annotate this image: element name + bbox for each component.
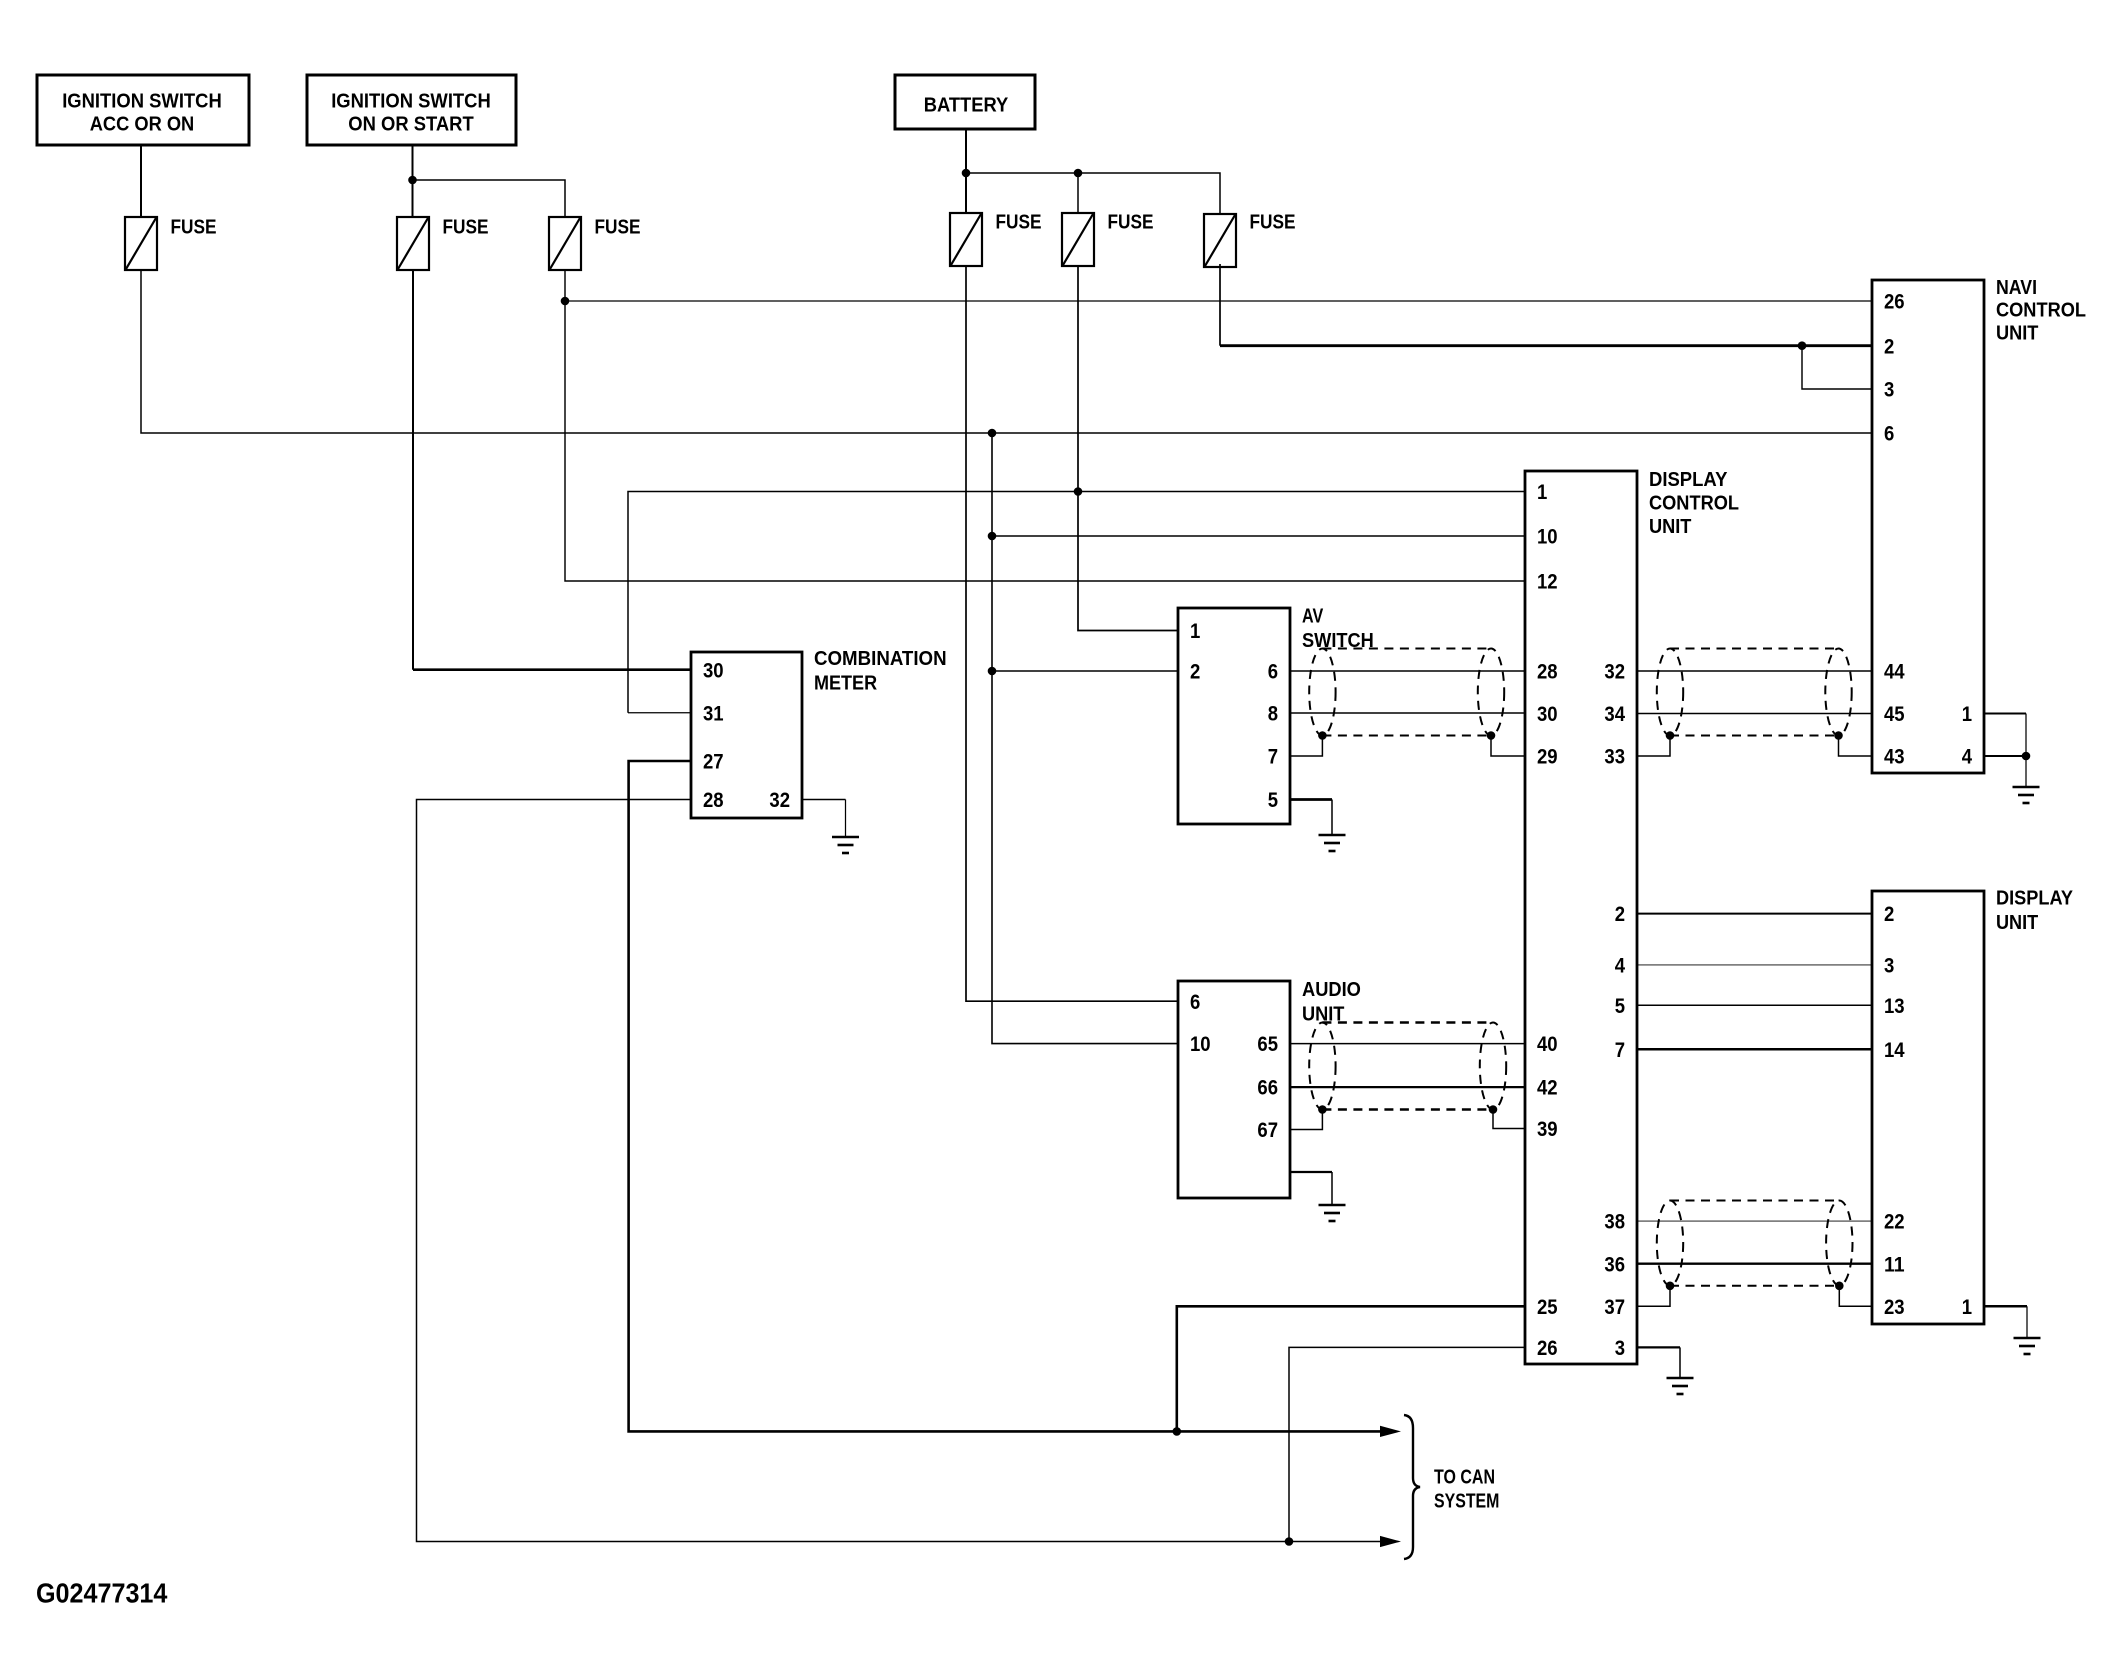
battery box bbox=[895, 75, 1035, 129]
wire: DCU 7 to DISPLAY 14 bbox=[1637, 1048, 1872, 1051]
wire: METER pin 31 stub bbox=[628, 712, 691, 714]
wire: DCU 36 to DISPLAY 11 bbox=[1637, 1262, 1872, 1264]
svg-text:3: 3 bbox=[1884, 955, 1894, 978]
wire: battery fuse2 to AV pin 1 bbox=[1078, 266, 1178, 631]
wire: junction to NAVI pin 26 bbox=[565, 300, 1872, 302]
label TO CAN SYSTEM bbox=[1434, 1466, 1499, 1512]
DISPLAY CONTROL UNIT pin 4 (right) bbox=[1615, 955, 1626, 978]
svg-text:30: 30 bbox=[703, 659, 724, 682]
wire: METER pin 27 to CAN (thick) bbox=[629, 761, 1381, 1431]
DISPLAY CONTROL UNIT pin 25 bbox=[1537, 1296, 1558, 1319]
junction NAVI ground bbox=[2022, 752, 2031, 761]
DISPLAY UNIT pin 3 bbox=[1884, 955, 1894, 978]
svg-text:7: 7 bbox=[1268, 746, 1278, 769]
svg-text:11: 11 bbox=[1884, 1253, 1905, 1276]
ground (AV SWITCH) bbox=[1319, 835, 1346, 851]
svg-text:2: 2 bbox=[1884, 903, 1894, 926]
junction battery bus left bbox=[962, 169, 971, 178]
svg-text:33: 33 bbox=[1604, 746, 1625, 769]
DISPLAY CONTROL UNIT pin 40 bbox=[1537, 1033, 1558, 1056]
shielded cable DCU-DISPLAY bbox=[1657, 1201, 1853, 1291]
DISPLAY UNIT pin 1 (right) bbox=[1962, 1296, 1973, 1319]
svg-text:COMBINATION: COMBINATION bbox=[814, 648, 947, 670]
AV SWITCH pin 2 bbox=[1190, 661, 1200, 684]
fuse (battery 1) bbox=[950, 212, 1042, 267]
fuse (IGN right) bbox=[549, 216, 641, 270]
wire: DCU 4 to DISPLAY 3 bbox=[1637, 964, 1872, 966]
shielded cable AV-DCU bbox=[1309, 649, 1504, 740]
wire: battery fuse3 to NAVI pin 2 (thick) bbox=[1220, 264, 1872, 346]
svg-text:37: 37 bbox=[1604, 1296, 1625, 1319]
AUDIO UNIT pin 67 (right) bbox=[1257, 1119, 1278, 1142]
DISPLAY UNIT box bbox=[1872, 887, 2074, 1324]
DISPLAY CONTROL UNIT pin 26 bbox=[1537, 1337, 1558, 1360]
wire: battery bus bbox=[966, 173, 1220, 214]
NAVI CONTROL UNIT box bbox=[1872, 277, 2086, 773]
svg-text:FUSE: FUSE bbox=[996, 212, 1042, 234]
wire: METER pin 28 to CAN bbox=[417, 800, 1381, 1542]
wire: DCU pin 10 feed bbox=[992, 535, 1525, 537]
svg-text:ON OR START: ON OR START bbox=[348, 113, 473, 135]
svg-text:2: 2 bbox=[1615, 903, 1625, 926]
svg-text:FUSE: FUSE bbox=[1250, 212, 1296, 234]
svg-text:42: 42 bbox=[1537, 1077, 1558, 1100]
DISPLAY UNIT pin 11 bbox=[1884, 1253, 1905, 1276]
NAVI pin 44 bbox=[1884, 661, 1905, 684]
figure number bbox=[36, 1577, 168, 1608]
shielded cable AUDIO-DCU bbox=[1309, 1023, 1506, 1114]
ground (DISPLAY CONTROL UNIT) bbox=[1667, 1378, 1694, 1394]
shielded cable DCU-NAVI bbox=[1657, 649, 1852, 740]
ground (COMBINATION METER) bbox=[832, 837, 859, 853]
wire: AUDIO 67 to shield drain bbox=[1290, 1110, 1322, 1130]
svg-text:6: 6 bbox=[1268, 661, 1278, 684]
svg-text:IGNITION SWITCH: IGNITION SWITCH bbox=[62, 90, 222, 112]
wire: shield drain to DISPLAY 23 bbox=[1839, 1286, 1872, 1307]
junction on NAVI 26 feed bbox=[561, 297, 570, 306]
COMBINATION METER box bbox=[691, 648, 947, 818]
DISPLAY CONTROL UNIT pin 10 bbox=[1537, 526, 1558, 549]
DISPLAY CONTROL UNIT pin 33 (right) bbox=[1604, 746, 1625, 769]
wire: DCU 2 to DISPLAY 2 bbox=[1637, 913, 1872, 915]
wire: NAVI pin 4 to ground bbox=[1984, 756, 2026, 787]
svg-text:5: 5 bbox=[1268, 789, 1279, 812]
svg-text:23: 23 bbox=[1884, 1296, 1905, 1319]
ignition switch ACC OR ON box bbox=[37, 75, 249, 145]
wire: battery fuse1 to AUDIO pin 6 bbox=[966, 266, 1178, 1001]
svg-text:66: 66 bbox=[1257, 1077, 1278, 1100]
ground (DISPLAY UNIT) bbox=[2014, 1338, 2041, 1354]
wire: DCU 34 to NAVI 45 bbox=[1637, 713, 1872, 715]
NAVI pin 43 bbox=[1884, 746, 1905, 769]
svg-text:1: 1 bbox=[1962, 703, 1973, 726]
NAVI pin 3 bbox=[1884, 379, 1894, 402]
wire: ACC fuse to NAVI pin 6 bbox=[141, 270, 1872, 433]
arrow CAN thick bbox=[1380, 1426, 1401, 1437]
wire: right IGN fuse down to DCU pin 12 bbox=[565, 270, 1525, 581]
junction NAVI 2/3 bbox=[1798, 341, 1807, 350]
AV SWITCH pin 5 (right) bbox=[1268, 789, 1279, 812]
AV SWITCH pin 6 (right) bbox=[1268, 661, 1278, 684]
wire: DCU 5 to DISPLAY 13 bbox=[1637, 1004, 1872, 1006]
wire: shield drain to DCU 29 bbox=[1491, 736, 1525, 757]
svg-text:UNIT: UNIT bbox=[1996, 912, 2038, 934]
svg-text:65: 65 bbox=[1257, 1033, 1278, 1056]
svg-text:44: 44 bbox=[1884, 661, 1905, 684]
DISPLAY UNIT pin 22 bbox=[1884, 1211, 1905, 1234]
AUDIO UNIT box bbox=[1178, 979, 1361, 1198]
svg-text:NAVI: NAVI bbox=[1996, 277, 2037, 299]
svg-text:FUSE: FUSE bbox=[171, 216, 217, 238]
ignition switch ON OR START box bbox=[307, 75, 516, 145]
AUDIO UNIT pin 6 bbox=[1190, 991, 1200, 1014]
wire: DCU 33 to shield drain bbox=[1637, 736, 1670, 757]
svg-text:67: 67 bbox=[1257, 1119, 1278, 1142]
wire: NAVI pin 3 feed bbox=[1802, 346, 1872, 389]
junction battery bus middle bbox=[1074, 169, 1083, 178]
wire: DCU pin 26 to CAN junction bbox=[1289, 1347, 1525, 1541]
svg-text:28: 28 bbox=[1537, 661, 1558, 684]
svg-text:2: 2 bbox=[1884, 335, 1894, 358]
svg-text:FUSE: FUSE bbox=[1108, 212, 1154, 234]
svg-text:29: 29 bbox=[1537, 746, 1558, 769]
brace TO CAN SYSTEM bbox=[1404, 1415, 1420, 1559]
NAVI pin 1 (right) bbox=[1962, 703, 1973, 726]
wire: IGN ACC to fuse bbox=[140, 145, 142, 217]
wire: DISPLAY UNIT pin 1 to ground bbox=[1984, 1306, 2027, 1338]
svg-text:IGNITION SWITCH: IGNITION SWITCH bbox=[331, 90, 491, 112]
AV SWITCH box bbox=[1178, 606, 1374, 825]
NAVI pin 4 (right) bbox=[1962, 746, 1973, 769]
DISPLAY CONTROL UNIT pin 5 (right) bbox=[1615, 995, 1626, 1018]
svg-text:METER: METER bbox=[814, 672, 878, 694]
junction ACC vertical top bbox=[988, 429, 997, 438]
junction DCU1/battery bbox=[1074, 487, 1083, 496]
DISPLAY CONTROL UNIT pin 37 (right) bbox=[1604, 1296, 1625, 1319]
svg-text:30: 30 bbox=[1537, 703, 1558, 726]
wire: DCU 38 to DISPLAY 22 bbox=[1637, 1220, 1872, 1222]
DISPLAY CONTROL UNIT pin 36 (right) bbox=[1604, 1253, 1625, 1276]
svg-text:32: 32 bbox=[1604, 661, 1625, 684]
fuse (ACC) bbox=[125, 216, 217, 270]
svg-text:7: 7 bbox=[1615, 1039, 1625, 1062]
AUDIO UNIT pin 66 (right) bbox=[1257, 1077, 1278, 1100]
wire: AV 7 to shield drain bbox=[1290, 736, 1322, 757]
svg-text:22: 22 bbox=[1884, 1211, 1905, 1234]
DISPLAY CONTROL UNIT pin 29 bbox=[1537, 746, 1558, 769]
NAVI pin 26 bbox=[1884, 291, 1905, 314]
COMBINATION METER pin 27 bbox=[703, 751, 724, 774]
svg-text:28: 28 bbox=[703, 789, 724, 812]
DISPLAY CONTROL UNIT pin 30 bbox=[1537, 703, 1558, 726]
svg-text:FUSE: FUSE bbox=[595, 216, 641, 238]
svg-text:DISPLAY: DISPLAY bbox=[1996, 887, 2074, 909]
svg-text:45: 45 bbox=[1884, 703, 1905, 726]
svg-text:3: 3 bbox=[1615, 1337, 1625, 1360]
fuse (battery 2) bbox=[1062, 212, 1154, 267]
wire: ACC branch vertical bbox=[992, 433, 1178, 1044]
DISPLAY UNIT pin 14 bbox=[1884, 1039, 1905, 1062]
wire: shield drain to NAVI 43 bbox=[1839, 736, 1873, 757]
svg-text:31: 31 bbox=[703, 702, 724, 725]
svg-text:BATTERY: BATTERY bbox=[924, 94, 1009, 116]
svg-text:TO CAN: TO CAN bbox=[1434, 1466, 1495, 1488]
fuse (battery 3) bbox=[1204, 212, 1296, 268]
DISPLAY CONTROL UNIT pin 7 (right) bbox=[1615, 1039, 1625, 1062]
AV SWITCH pin 8 (right) bbox=[1268, 703, 1279, 726]
svg-text:26: 26 bbox=[1537, 1337, 1558, 1360]
svg-text:43: 43 bbox=[1884, 746, 1905, 769]
wire: AV 6 to DCU 28 bbox=[1290, 670, 1525, 672]
COMBINATION METER pin 28 bbox=[703, 789, 724, 812]
svg-text:DISPLAY: DISPLAY bbox=[1649, 469, 1728, 491]
svg-text:38: 38 bbox=[1604, 1211, 1625, 1234]
svg-text:14: 14 bbox=[1884, 1039, 1905, 1062]
svg-text:8: 8 bbox=[1268, 703, 1279, 726]
svg-text:34: 34 bbox=[1604, 703, 1625, 726]
svg-text:AUDIO: AUDIO bbox=[1302, 979, 1361, 1001]
AV SWITCH pin 7 (right) bbox=[1268, 746, 1278, 769]
svg-text:25: 25 bbox=[1537, 1296, 1558, 1319]
svg-text:UNIT: UNIT bbox=[1649, 516, 1691, 538]
COMBINATION METER pin 31 bbox=[703, 702, 724, 725]
wire: battery down bbox=[965, 129, 967, 213]
svg-text:6: 6 bbox=[1884, 423, 1894, 446]
svg-text:40: 40 bbox=[1537, 1033, 1558, 1056]
svg-text:ACC OR ON: ACC OR ON bbox=[90, 113, 195, 135]
wire: DCU pin 25 to CAN junction (thick) bbox=[1177, 1306, 1525, 1431]
svg-text:CONTROL: CONTROL bbox=[1996, 300, 2086, 322]
svg-text:1: 1 bbox=[1190, 620, 1201, 643]
svg-text:3: 3 bbox=[1884, 379, 1894, 402]
DISPLAY UNIT pin 23 bbox=[1884, 1296, 1905, 1319]
DISPLAY CONTROL UNIT pin 3 (right) bbox=[1615, 1337, 1625, 1360]
svg-text:SYSTEM: SYSTEM bbox=[1434, 1490, 1499, 1512]
svg-text:26: 26 bbox=[1884, 291, 1905, 314]
wire: AUDIO 65 to DCU 40 bbox=[1290, 1043, 1525, 1045]
wire: IGN ON/START to fuse bbox=[412, 145, 414, 217]
COMBINATION METER pin 32 (right) bbox=[769, 789, 790, 812]
DISPLAY CONTROL UNIT pin 2 (right) bbox=[1615, 903, 1625, 926]
wire: METER pin 32 to ground bbox=[802, 800, 846, 838]
junction CAN thick bbox=[1173, 1427, 1182, 1436]
DISPLAY CONTROL UNIT pin 34 (right) bbox=[1604, 703, 1625, 726]
fuse (IGN left) bbox=[397, 216, 489, 270]
AUDIO UNIT pin 10 bbox=[1190, 1033, 1211, 1056]
wire: NAVI pin 1 to ground bus bbox=[1984, 714, 2026, 757]
junction AV2 bbox=[988, 667, 997, 676]
svg-text:FUSE: FUSE bbox=[443, 216, 489, 238]
svg-text:AV: AV bbox=[1302, 606, 1324, 628]
ground (AUDIO UNIT) bbox=[1319, 1205, 1346, 1221]
NAVI pin 6 bbox=[1884, 423, 1894, 446]
svg-text:4: 4 bbox=[1615, 955, 1626, 978]
AUDIO UNIT pin 65 (right) bbox=[1257, 1033, 1278, 1056]
wire: AV 8 to DCU 30 bbox=[1290, 712, 1525, 714]
svg-text:UNIT: UNIT bbox=[1996, 322, 2038, 344]
junction DCU10 bbox=[988, 532, 997, 541]
wire: DCU 37 to shield drain bbox=[1637, 1286, 1670, 1307]
NAVI pin 45 bbox=[1884, 703, 1905, 726]
svg-text:10: 10 bbox=[1190, 1033, 1211, 1056]
DISPLAY CONTROL UNIT pin 28 bbox=[1537, 661, 1558, 684]
svg-text:1: 1 bbox=[1537, 481, 1548, 504]
svg-text:1: 1 bbox=[1962, 1296, 1973, 1319]
AV SWITCH pin 1 bbox=[1190, 620, 1201, 643]
svg-text:32: 32 bbox=[769, 789, 790, 812]
svg-text:13: 13 bbox=[1884, 995, 1905, 1018]
DISPLAY CONTROL UNIT pin 38 (right) bbox=[1604, 1211, 1625, 1234]
svg-text:6: 6 bbox=[1190, 991, 1200, 1014]
DISPLAY CONTROL UNIT box bbox=[1525, 469, 1739, 1364]
wire: AUDIO 66 to DCU 42 bbox=[1290, 1086, 1525, 1088]
wire: IGN branch to right fuse bbox=[413, 180, 566, 217]
COMBINATION METER pin 30 bbox=[703, 659, 724, 682]
svg-text:G02477314: G02477314 bbox=[36, 1577, 168, 1608]
svg-text:5: 5 bbox=[1615, 995, 1626, 1018]
wire: AUDIO ground stub bbox=[1290, 1172, 1332, 1205]
DISPLAY CONTROL UNIT pin 1 bbox=[1537, 481, 1548, 504]
wire: bus to middle fuse bbox=[1077, 173, 1079, 213]
DISPLAY UNIT pin 2 bbox=[1884, 903, 1894, 926]
svg-text:36: 36 bbox=[1604, 1253, 1625, 1276]
DISPLAY CONTROL UNIT pin 39 bbox=[1537, 1118, 1558, 1141]
DISPLAY CONTROL UNIT pin 42 bbox=[1537, 1077, 1558, 1100]
junction at IGN branch bbox=[408, 176, 417, 185]
svg-text:27: 27 bbox=[703, 751, 724, 774]
DISPLAY UNIT pin 13 bbox=[1884, 995, 1905, 1018]
wire: DCU pin 1 feed bbox=[628, 492, 1525, 713]
wire: shield drain to DCU 39 bbox=[1493, 1110, 1525, 1129]
svg-text:39: 39 bbox=[1537, 1118, 1558, 1141]
svg-text:4: 4 bbox=[1962, 746, 1973, 769]
wire: DCU 32 to NAVI 44 bbox=[1637, 670, 1872, 672]
ground (NAVI CONTROL UNIT) bbox=[2013, 787, 2040, 803]
svg-text:10: 10 bbox=[1537, 526, 1558, 549]
wire: DCU pin 3 to ground bbox=[1637, 1347, 1680, 1378]
junction CAN thin bbox=[1285, 1537, 1294, 1546]
DISPLAY CONTROL UNIT pin 32 (right) bbox=[1604, 661, 1625, 684]
arrow CAN thin bbox=[1380, 1536, 1401, 1547]
svg-text:2: 2 bbox=[1190, 661, 1200, 684]
NAVI pin 2 bbox=[1884, 335, 1894, 358]
svg-text:CONTROL: CONTROL bbox=[1649, 493, 1739, 515]
DISPLAY CONTROL UNIT pin 12 bbox=[1537, 571, 1558, 594]
wire: left IGN fuse to METER pin 30 bbox=[413, 270, 691, 670]
wire: AV pin 2 feed bbox=[992, 670, 1178, 672]
svg-text:12: 12 bbox=[1537, 571, 1558, 594]
wire: AV 5 ground stub bbox=[1290, 800, 1332, 836]
